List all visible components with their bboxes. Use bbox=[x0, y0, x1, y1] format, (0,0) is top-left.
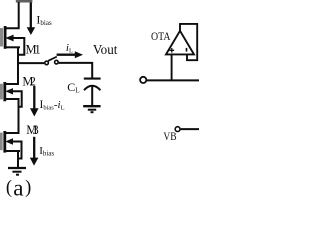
svg-text:M3: M3 bbox=[26, 123, 39, 137]
svg-text:a: a bbox=[13, 176, 23, 200]
svg-text:): ) bbox=[25, 178, 31, 198]
svg-text:M2: M2 bbox=[22, 74, 36, 88]
svg-text:M1: M1 bbox=[26, 42, 41, 56]
svg-text:(: ( bbox=[6, 178, 12, 198]
svg-text:Vout: Vout bbox=[93, 43, 118, 58]
svg-text:VB: VB bbox=[163, 131, 176, 143]
svg-text:OTA: OTA bbox=[151, 29, 171, 43]
